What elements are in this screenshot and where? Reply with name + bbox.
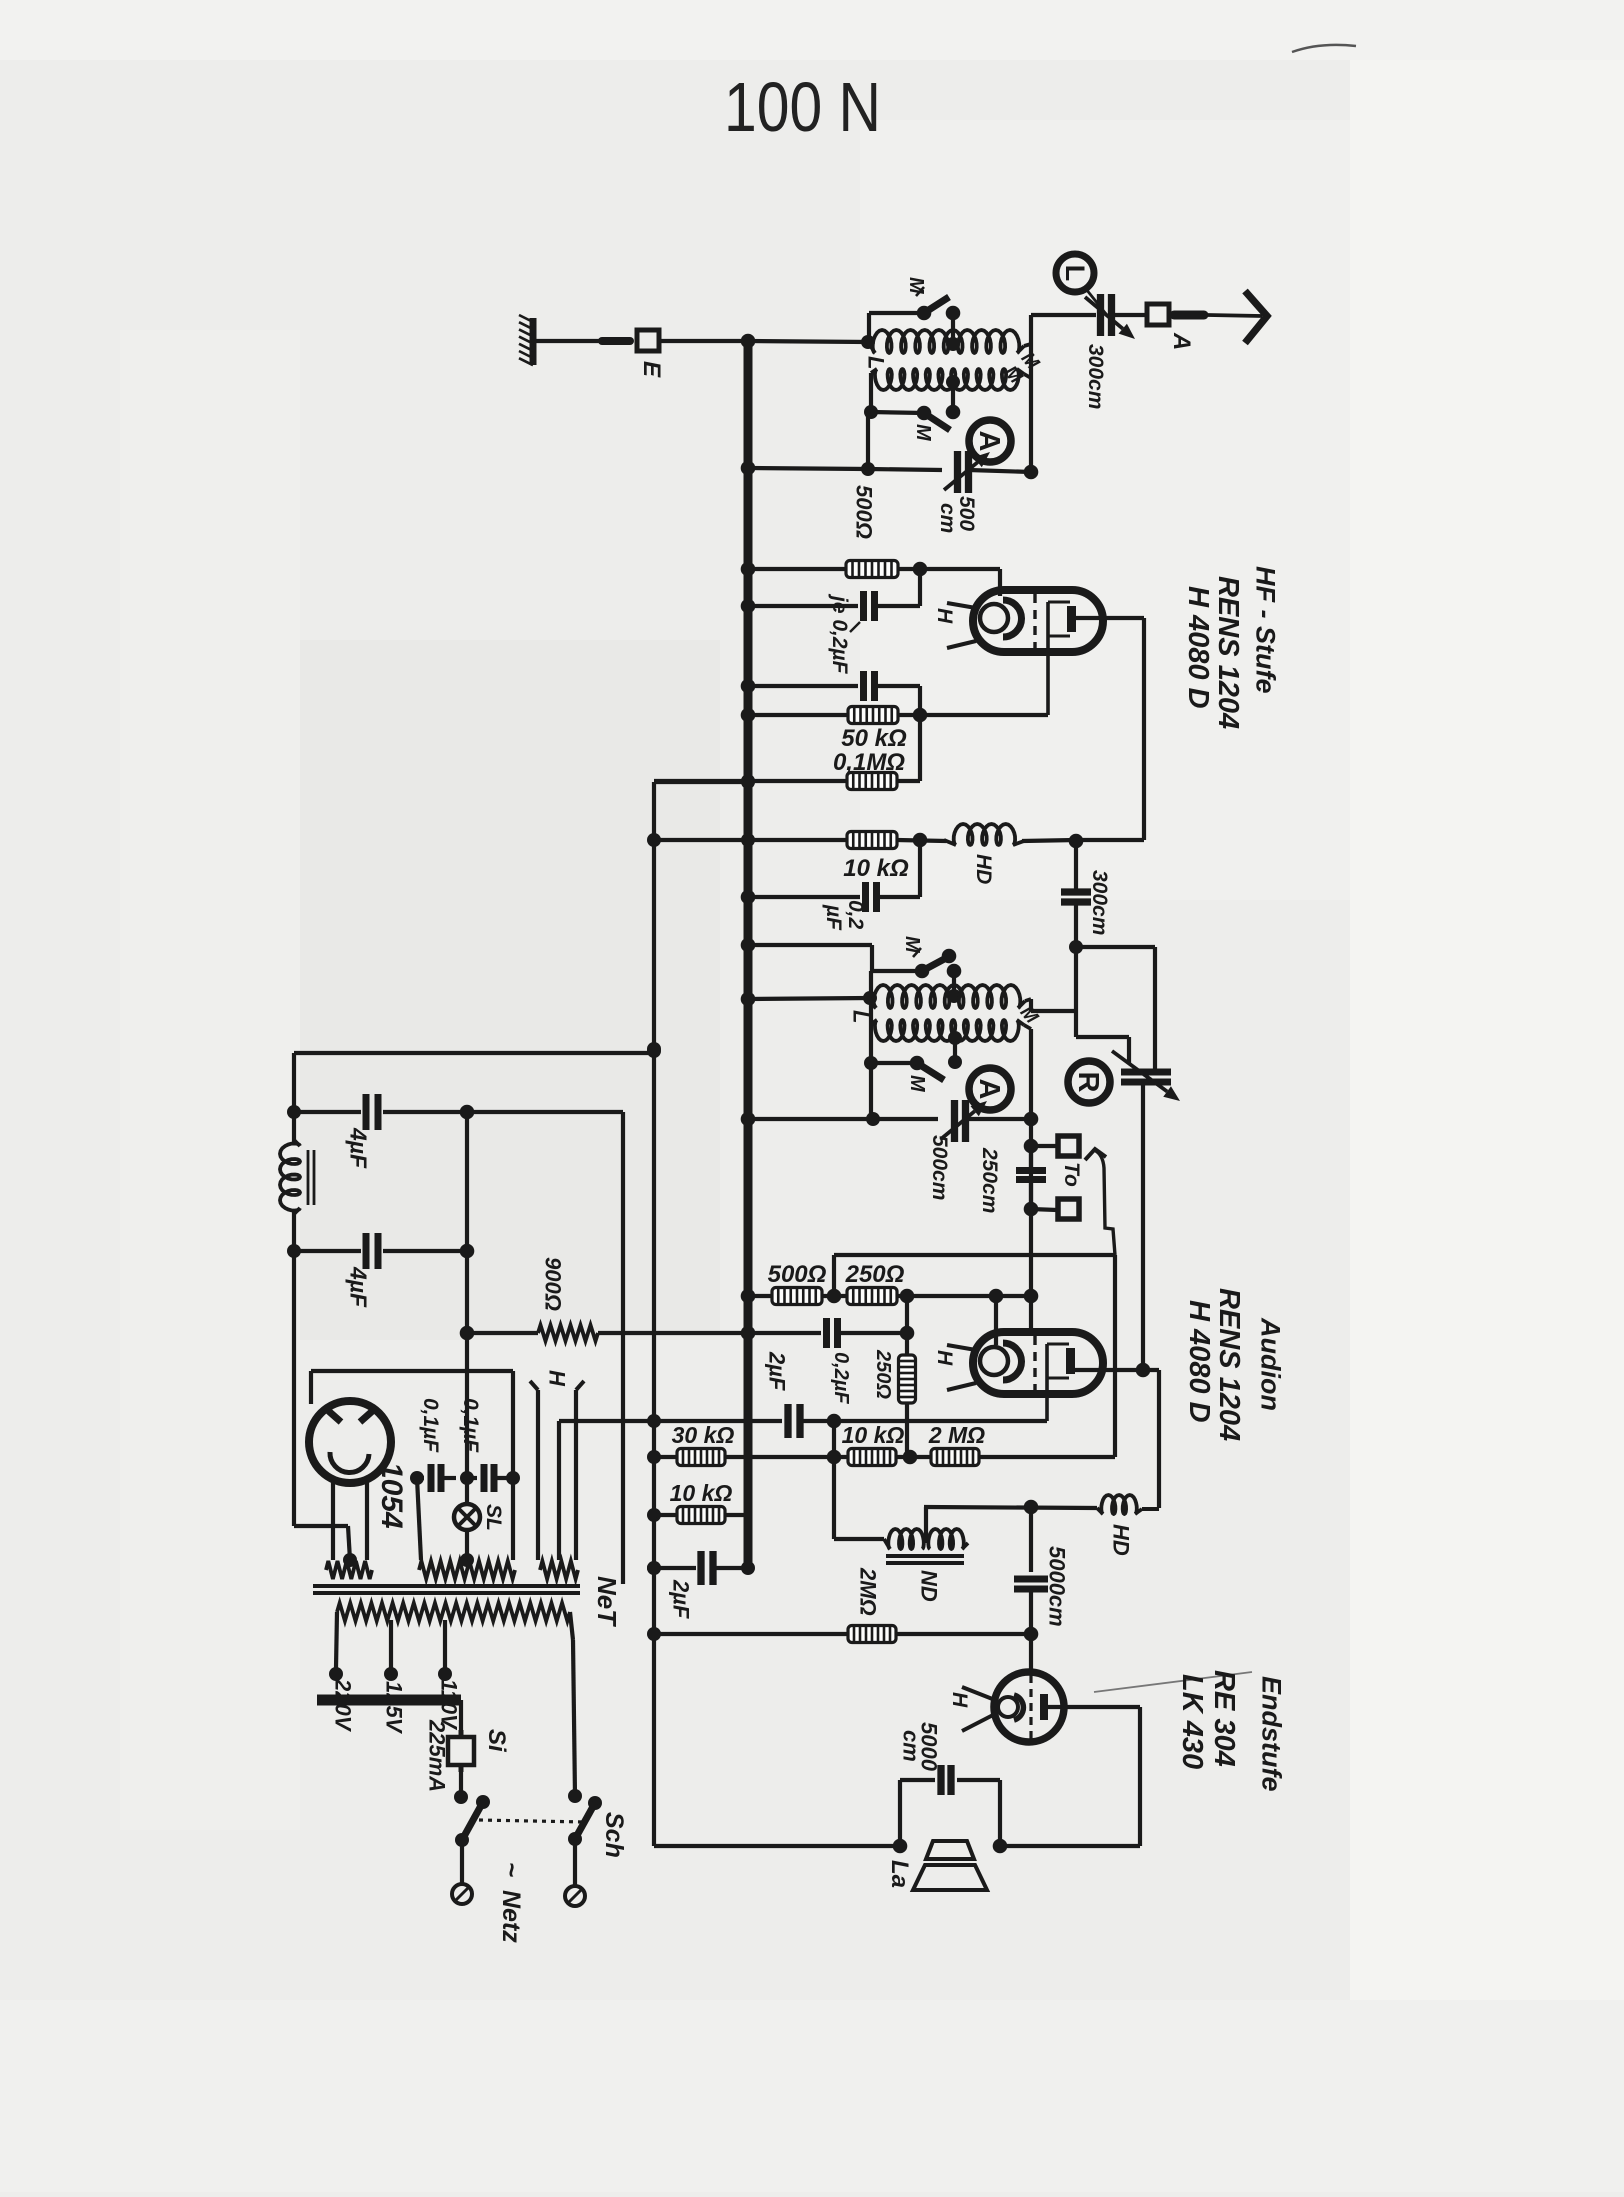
- svg-text:RE 304: RE 304: [1208, 1670, 1240, 1767]
- tube U1 grid dashed: [1033, 594, 1036, 648]
- pickup switch arm: [1085, 1149, 1115, 1255]
- tube U1 anode: [1048, 602, 1076, 715]
- capacitor 300cm variable: [1101, 294, 1112, 336]
- label 2uF coupling: [764, 1351, 789, 1391]
- svg-text:10 kΩ: 10 kΩ: [670, 1480, 733, 1506]
- primary tap 110V: [438, 1620, 452, 1681]
- label ~Netz: [497, 1862, 527, 1943]
- circle terminal L: [1056, 254, 1094, 292]
- svg-text:M: M: [905, 277, 927, 295]
- svg-text:ND: ND: [916, 1570, 941, 1602]
- wire bus to 10k3: [748, 1455, 849, 1459]
- pickup to grid resistor drop: [1113, 1255, 1117, 1457]
- wave switch M1 (circuit2): [915, 949, 962, 979]
- svg-text:H 4080 D: H 4080 D: [1183, 1300, 1215, 1423]
- label H tube U1: [933, 608, 956, 624]
- wire to switch M2: [871, 412, 924, 413]
- capacitor 0.2uF A: [864, 591, 875, 621]
- primary tap 125V: [384, 1620, 398, 1681]
- wire reaction cap down: [1141, 1082, 1145, 1370]
- winding leads 0.1uF: [417, 1478, 513, 1560]
- svg-text:µF: µF: [822, 904, 845, 931]
- wire 10k4 to bus: [725, 1513, 748, 1517]
- wire B+ corner: [467, 1110, 623, 1114]
- wire riser coil ends to cap300: [1029, 315, 1033, 470]
- wire grid node down: [1029, 1634, 1033, 1673]
- label 30kohm: [672, 1422, 735, 1448]
- svg-text:2 MΩ: 2 MΩ: [928, 1422, 985, 1448]
- B+ top wire: [294, 1044, 661, 1058]
- To jack upper square: [1058, 1136, 1079, 1156]
- wire coil2 right to riser: [1024, 374, 1031, 378]
- label 225mA: [424, 1719, 449, 1792]
- label 300cm: [1084, 344, 1107, 409]
- svg-text:HD: HD: [1108, 1524, 1133, 1556]
- svg-text:2µF: 2µF: [668, 1579, 693, 1619]
- label 10kohm audion: [842, 1422, 905, 1448]
- capacitor 0.2uF B: [864, 671, 875, 701]
- label La: [886, 1860, 913, 1888]
- switch link dashed: [479, 1820, 585, 1822]
- label 220V: [330, 1678, 355, 1733]
- label H4080D (U1): [1182, 586, 1214, 709]
- tube U3 anode: [1040, 1694, 1048, 1720]
- label H tube U2: [933, 1350, 956, 1366]
- wire cap500 c2 to grid riser: [966, 1112, 1038, 1127]
- label 0,1Mohm: [833, 749, 905, 776]
- transformer core: [313, 1586, 580, 1593]
- wire x654 to 2M2: [654, 1632, 849, 1636]
- wire cap500 to grid riser: [969, 465, 1038, 480]
- wire grid riser c2 down: [1029, 1029, 1033, 1332]
- wire fuse to switch: [454, 1772, 468, 1804]
- arrow cap 500cm: [944, 452, 990, 490]
- svg-text:L: L: [1060, 265, 1090, 282]
- tube U1 cathode: [980, 600, 1022, 637]
- leader line RE304: [1094, 1672, 1252, 1692]
- svg-text:E: E: [638, 361, 665, 378]
- label Si: [483, 1729, 510, 1753]
- label 500ohm audion: [768, 1261, 827, 1288]
- svg-text:L: L: [848, 1010, 873, 1023]
- label 500ohm rotated: [851, 485, 876, 539]
- wire U2 anode out: [1075, 1363, 1159, 1508]
- wire row to grid line: [897, 1289, 1038, 1304]
- tube U3 cathode: [998, 1695, 1023, 1720]
- rect tube 1054 bracket: [311, 1371, 513, 1478]
- ground symbol: [519, 315, 533, 365]
- wire cap to bus end: [713, 1561, 755, 1575]
- label LK430: [1176, 1674, 1208, 1769]
- left column to winding: [294, 1526, 357, 1567]
- capacitor 4uF #2: [294, 1233, 474, 1269]
- wire corner to cap 300cm: [1031, 313, 1096, 317]
- resistor 2Mohm (output grid): [848, 1626, 896, 1643]
- capacitor 0,2uF screen: [866, 882, 877, 912]
- wire bus to cap A: [741, 599, 858, 614]
- wire bus to coil c2 upper: [741, 991, 877, 1006]
- wave switch M1 (circuit1): [917, 297, 961, 320]
- label 5000 cm speaker: [898, 1722, 941, 1772]
- wire c2 lower tap: [948, 1031, 962, 1069]
- label Audion: [1255, 1317, 1285, 1411]
- label 2uF bottom: [668, 1579, 693, 1619]
- svg-text:250Ω: 250Ω: [872, 1349, 894, 1399]
- resistor 50kohm: [848, 707, 898, 724]
- label 0,2uF audion: [830, 1352, 852, 1404]
- antenna arrowhead: [1245, 291, 1267, 343]
- wire R500 to cathode drop: [898, 562, 1000, 596]
- wire switch tap to coil1: [946, 313, 960, 351]
- label SL: [482, 1504, 505, 1531]
- resistor 10kohm (bias): [677, 1507, 725, 1524]
- antenna coil L2 lower winding: [871, 369, 1024, 390]
- rectifier tube 1054: [309, 1401, 391, 1483]
- wire to cap 500cm: [868, 469, 942, 470]
- wire coil1 left riser: [869, 313, 924, 342]
- svg-text:A: A: [973, 431, 1005, 452]
- arrow reaction cap: [1112, 1051, 1180, 1101]
- label H tube U3: [948, 1692, 971, 1708]
- label 0,1uF b: [459, 1398, 482, 1453]
- svg-text:H: H: [933, 1350, 956, 1366]
- svg-text:250Ω: 250Ω: [845, 1261, 905, 1288]
- wire grid to To jack1: [1024, 1139, 1057, 1154]
- svg-text:4µF: 4µF: [346, 1127, 372, 1169]
- label 2Mohm: [928, 1422, 985, 1448]
- wire riser c2: [1031, 999, 1076, 1011]
- wire bus to cap B: [741, 679, 858, 694]
- svg-text:~: ~: [497, 1862, 527, 1877]
- tube U2 cathode: [980, 1343, 1022, 1380]
- wire bias to 10k4: [647, 1508, 677, 1522]
- label M coil c2 upper: [1016, 1002, 1043, 1029]
- label 125V: [381, 1681, 406, 1735]
- label HF-Stufe: [1250, 566, 1280, 694]
- tube U1 heater leads: [947, 603, 976, 648]
- resistor 500ohm (audion): [772, 1288, 822, 1305]
- transformer ND primary: [884, 1529, 924, 1549]
- antenna lead wire: [1208, 315, 1262, 316]
- label 10kohm: [843, 855, 909, 882]
- B+ feed riser: [467, 1112, 623, 1584]
- label A: [1168, 332, 1195, 350]
- label H heater: [544, 1370, 569, 1387]
- svg-text:Si: Si: [483, 1729, 510, 1753]
- wire switch tap to coil c2: [947, 971, 961, 1003]
- lamp SL: [454, 1478, 480, 1567]
- label 1054: [375, 1462, 408, 1529]
- tube U1 HF envelope: [973, 590, 1103, 652]
- svg-text:Sch: Sch: [600, 1812, 628, 1858]
- wire anode node to reaction cap: [1069, 940, 1155, 1073]
- resistor 10kohm (screen): [847, 832, 897, 849]
- coupling cap 2uF row y=1421: [559, 1419, 782, 1423]
- svg-text:RENS 1204: RENS 1204: [1212, 576, 1244, 729]
- svg-text:Netz: Netz: [497, 1890, 525, 1943]
- svg-text:Endstufe: Endstufe: [1256, 1676, 1286, 1792]
- wire bias to 30k: [647, 1450, 677, 1464]
- fuse Si: [448, 1730, 474, 1772]
- wire bias to 10k row: [654, 833, 755, 847]
- svg-text:2µF: 2µF: [764, 1351, 789, 1391]
- bias line vertical: [647, 782, 661, 1846]
- svg-text:H 4080 D: H 4080 D: [1182, 586, 1214, 709]
- connector E plug bar: [602, 337, 630, 345]
- heater pair H: [530, 1381, 584, 1560]
- wire 900 row: [467, 1331, 748, 1335]
- svg-text:500cm: 500cm: [928, 1135, 951, 1200]
- svg-text:30 kΩ: 30 kΩ: [672, 1422, 735, 1448]
- wire cap to R10k junction: [877, 840, 920, 897]
- tube U2 audion envelope: [973, 1332, 1103, 1394]
- wire 250v to row: [905, 1403, 909, 1457]
- capacitor 500cm variable c2: [955, 1100, 966, 1142]
- audion coil upper winding: [870, 985, 1031, 1008]
- svg-text:cm: cm: [936, 503, 959, 533]
- label 500cm c2: [928, 1135, 951, 1200]
- page curl mark: [1292, 45, 1356, 52]
- wire ground to plug E: [533, 339, 604, 343]
- wire 834 column: [827, 1421, 842, 1539]
- label 250ohm vertical: [872, 1349, 894, 1399]
- circle terminal A meter c2: [969, 1068, 1011, 1110]
- wire R to R: [822, 1289, 848, 1304]
- svg-text:0,2µF: 0,2µF: [830, 1352, 852, 1404]
- svg-text:900Ω: 900Ω: [540, 1257, 565, 1311]
- transformer primary: [337, 1603, 570, 1621]
- label 2Mohm output: [855, 1567, 880, 1616]
- svg-text:100 N: 100 N: [724, 68, 881, 146]
- label M coil1 end: [1017, 348, 1044, 375]
- wire feedback branch: [1076, 1037, 1129, 1064]
- resistor 30kohm: [677, 1449, 725, 1466]
- label M switch2: [912, 424, 934, 442]
- svg-text:500Ω: 500Ω: [851, 485, 876, 539]
- svg-text:50 kΩ: 50 kΩ: [841, 725, 907, 752]
- resistor 250ohm vertical: [899, 1355, 916, 1403]
- wire bus to antenna coil: [748, 335, 875, 349]
- wire U1 anode out: [1076, 618, 1144, 840]
- resistor 250ohm (audion): [847, 1288, 897, 1305]
- wire switch2 c2 left: [864, 1056, 917, 1070]
- wire U3 anode out: [1000, 1707, 1140, 1846]
- svg-text:A: A: [1168, 332, 1195, 350]
- label RENS 1204 (U2): [1213, 1288, 1245, 1441]
- audion coil lower winding: [871, 1020, 1031, 1041]
- label M switch2 c2: [906, 1075, 928, 1093]
- bias line top corner: [654, 775, 755, 789]
- transformer ND core: [886, 1556, 964, 1563]
- wire cap2uF to dot: [800, 1414, 1047, 1429]
- svg-text:125V: 125V: [381, 1681, 406, 1735]
- tube U3 RE304 envelope: [994, 1672, 1064, 1742]
- label E: [638, 361, 665, 378]
- label To: [1060, 1162, 1083, 1187]
- label M switch1: [905, 277, 927, 296]
- resistor 0.1Mohm: [847, 773, 897, 790]
- svg-text:2MΩ: 2MΩ: [855, 1567, 880, 1616]
- svg-text:cm: cm: [898, 1730, 923, 1762]
- wire c2 left column: [871, 945, 922, 1119]
- row 500/250 from bus: [741, 1289, 772, 1304]
- transformer ND secondary: [928, 1529, 968, 1549]
- connector A socket square: [1147, 304, 1169, 325]
- svg-text:500Ω: 500Ω: [768, 1261, 827, 1288]
- arrow cap 300cm: [1085, 297, 1135, 339]
- label 50kohm: [841, 725, 907, 752]
- wire bias line to R 0.1M: [654, 774, 755, 788]
- wire coil2 left drop: [864, 373, 878, 419]
- capacitor 500cm variable: [958, 451, 969, 493]
- label L coil1: [863, 356, 888, 369]
- svg-text:HF - Stufe: HF - Stufe: [1250, 566, 1280, 694]
- capacitor 2uF (bottom): [701, 1551, 713, 1585]
- tube U2 anode: [1047, 1344, 1075, 1421]
- capacitor 300cm interstage: [1061, 841, 1091, 1037]
- transformer winding A: [326, 1561, 372, 1579]
- label RE304: [1208, 1670, 1240, 1767]
- junction coil2 left column: [861, 412, 875, 476]
- label 110V: [436, 1679, 461, 1731]
- capacitor 2uF (grid coupling): [788, 1404, 800, 1438]
- transformer winding C: [540, 1561, 578, 1579]
- wave switch M2 (circuit1): [917, 405, 961, 430]
- capacitor 4uF #1: [294, 1094, 474, 1130]
- svg-text:10 kΩ: 10 kΩ: [843, 855, 909, 882]
- reaction capacitor variable: [1121, 1072, 1171, 1082]
- svg-text:250cm: 250cm: [978, 1147, 1001, 1213]
- svg-text:To: To: [1060, 1162, 1083, 1187]
- capacitor 0,2uF audion: [827, 1318, 838, 1348]
- svg-text:1054: 1054: [375, 1462, 408, 1529]
- switch Sch pole 1: [455, 1795, 490, 1847]
- label 250cm: [978, 1147, 1001, 1213]
- wire ND centre tap up: [924, 1507, 928, 1543]
- tube 1054 filament leads: [333, 1479, 367, 1560]
- circle terminal R: [1068, 1061, 1110, 1103]
- wire capA to junction: [875, 569, 920, 606]
- label RENS 1204 (U1): [1212, 576, 1244, 729]
- wire bus to R0.1M: [748, 779, 848, 783]
- svg-text:R: R: [1072, 1072, 1104, 1093]
- label HD2: [1108, 1524, 1133, 1556]
- resistor 900ohm zigzag: [538, 1325, 598, 1341]
- capacitor 5000cm (speaker): [893, 1765, 1008, 1853]
- wire bus to R10k: [748, 838, 847, 842]
- svg-text:M: M: [912, 424, 934, 442]
- switch Sch pole 2: [568, 1789, 602, 1846]
- wire cap to 250 vert: [838, 1296, 914, 1355]
- label Sch: [600, 1812, 628, 1858]
- caps 0.1uF row: [410, 1464, 520, 1492]
- wire capB to grid leak junction: [875, 686, 920, 715]
- wave switch M2 (circuit2): [910, 1056, 944, 1080]
- leader L to cap300: [1086, 289, 1106, 314]
- wire ND row to HD2: [924, 1500, 1097, 1515]
- arrow cap 500cm c2: [941, 1101, 987, 1139]
- svg-text:0,2: 0,2: [844, 900, 867, 930]
- label 0,2 uF screen: [822, 900, 867, 931]
- circle terminal A meter: [969, 420, 1011, 462]
- label 900ohm: [540, 1257, 565, 1311]
- wire 2M2 to grid node: [896, 1627, 1038, 1642]
- wire grid to To jack2: [1024, 1202, 1057, 1217]
- choke HD1: [920, 824, 1024, 845]
- svg-text:300cm: 300cm: [1084, 344, 1107, 409]
- svg-text:LK 430: LK 430: [1176, 1674, 1208, 1769]
- label 300cm interstage: [1088, 870, 1111, 935]
- svg-text:A: A: [973, 1079, 1005, 1100]
- wire x654 to cap2uF2: [647, 1561, 696, 1575]
- svg-text:HD: HD: [972, 854, 995, 884]
- wire E to bus: [659, 334, 755, 349]
- filter column: [460, 1112, 475, 1478]
- label NeT: [592, 1576, 622, 1627]
- speaker La: [913, 1841, 987, 1890]
- wire cap300 to connector A: [1112, 313, 1145, 317]
- svg-text:0,1µF: 0,1µF: [419, 1398, 442, 1453]
- smoothing choke: [280, 1112, 314, 1251]
- label 250ohm audion: [845, 1261, 905, 1288]
- svg-text:H: H: [948, 1692, 971, 1708]
- tube U2 grid dashed: [1033, 1336, 1036, 1390]
- label Endstufe: [1256, 1676, 1286, 1792]
- label 500 cm: [936, 496, 978, 533]
- wire 10k3 to 2M: [896, 1403, 931, 1464]
- wire bus to switch row c2: [741, 938, 872, 953]
- main ground bus wire: [744, 339, 753, 1568]
- wire bus to 500cm row: [741, 461, 868, 476]
- capacitor 5000cm (anode): [1014, 1507, 1048, 1634]
- resistor 500ohm: [846, 561, 898, 578]
- resistor 2Mohm: [931, 1449, 979, 1466]
- label H4080D (U2): [1183, 1300, 1215, 1423]
- tube U3 heater leads: [962, 1687, 995, 1731]
- svg-text:225mA: 225mA: [424, 1719, 449, 1792]
- wire selector to fuse: [459, 1700, 463, 1737]
- transformer winding B: [419, 1561, 515, 1579]
- svg-text:5000cm: 5000cm: [1044, 1546, 1069, 1627]
- wire bus to R 500ohm: [741, 562, 845, 577]
- svg-text:NeT: NeT: [592, 1576, 622, 1627]
- label je 0,2uF: [828, 593, 860, 675]
- primary lead left: [329, 1612, 343, 1681]
- svg-text:L: L: [863, 356, 888, 369]
- label 10kohm bias: [670, 1480, 733, 1506]
- svg-text:SL: SL: [482, 1504, 505, 1531]
- label 0,1uF a: [419, 1398, 442, 1453]
- wire HD1 to anode node: [1022, 840, 1076, 841]
- voltage selector bar: [317, 1695, 461, 1706]
- label M switch1 c2: [901, 936, 923, 957]
- wire R0.1M to junction: [896, 715, 920, 781]
- wire anode row to HD: [1069, 834, 1144, 849]
- wire cathode drop c2: [994, 1296, 998, 1345]
- svg-text:je 0,2µF: je 0,2µF: [828, 593, 851, 675]
- pickup return row: [834, 1255, 1115, 1296]
- svg-text:10 kΩ: 10 kΩ: [842, 1422, 905, 1448]
- connector E socket square: [637, 330, 659, 351]
- svg-text:M: M: [906, 1075, 928, 1093]
- bottom return wire: [654, 1844, 900, 1848]
- left column wire: [287, 1053, 301, 1526]
- label ND: [916, 1570, 941, 1602]
- wire to cap 500cm c2: [873, 1117, 938, 1121]
- label L coil c2: [848, 1010, 873, 1023]
- label HD1: [972, 854, 995, 884]
- mains terminal 2: [565, 1839, 585, 1906]
